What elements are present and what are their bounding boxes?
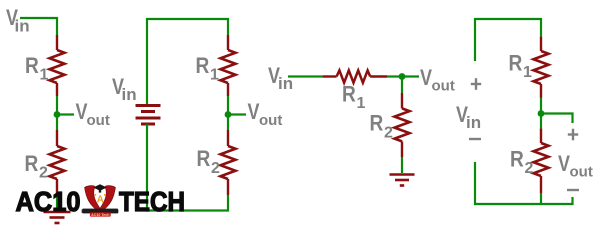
- label R1 (circuit C): [342, 82, 366, 113]
- svg-text:V: V: [558, 151, 570, 176]
- svg-text:R: R: [196, 53, 210, 78]
- wire top rail: [147, 19, 228, 105]
- svg-text:1: 1: [40, 67, 49, 84]
- label Vin (circuit B): [112, 74, 137, 104]
- wire R2 bottom to ground: [401, 157, 403, 173]
- battery V1: [136, 106, 161, 125]
- svg-text:2: 2: [384, 125, 393, 142]
- svg-text:R: R: [197, 146, 211, 171]
- wire R2 bottom (circuit D): [540, 193, 542, 204]
- svg-text:R: R: [25, 53, 39, 78]
- wire R1 to R2: [227, 96, 229, 130]
- wire battery bottom rail: [147, 124, 228, 211]
- label Vin (circuit A): [6, 5, 30, 36]
- wire Vout stub (circuit B): [228, 113, 246, 115]
- label Vout (circuit B): [248, 99, 283, 129]
- svg-text:2: 2: [39, 165, 48, 182]
- resistor R2 (circuit C): [395, 93, 410, 157]
- ground (circuit C): [390, 175, 415, 186]
- resistor R2 (circuit A): [50, 130, 65, 195]
- resistor R1 (circuit D): [534, 37, 549, 98]
- wire R1 to junction: [540, 98, 542, 129]
- svg-text:out: out: [259, 112, 282, 129]
- svg-text:out: out: [570, 164, 593, 181]
- svg-text:2: 2: [211, 160, 220, 177]
- label Vin (circuit C): [268, 63, 293, 93]
- svg-text:R: R: [370, 111, 384, 136]
- label R1 (circuit B): [196, 53, 220, 84]
- wire R2 bottom to ground: [56, 195, 58, 211]
- svg-text:R: R: [510, 147, 524, 172]
- wire Vout stub (circuit D): [541, 114, 573, 124]
- svg-text:1: 1: [210, 67, 219, 84]
- wire junction down: [401, 77, 403, 94]
- svg-text:AC10 Tech: AC10 Tech: [91, 213, 109, 217]
- wire Vin to R1 left: [288, 75, 323, 77]
- node Vout junction (circuit A): [54, 111, 61, 118]
- ground (circuit A): [44, 212, 71, 223]
- svg-text:R: R: [342, 82, 356, 107]
- resistor R1 (circuit A): [50, 35, 65, 96]
- resistor R2 (circuit B): [221, 130, 236, 195]
- wire Vout stub: [57, 113, 74, 115]
- wire R1 right to Vout: [387, 75, 419, 77]
- svg-text:1: 1: [357, 95, 366, 112]
- label R2 (circuit C): [370, 111, 394, 142]
- svg-text:2: 2: [525, 160, 534, 177]
- svg-text:1: 1: [523, 64, 532, 81]
- label + terminal Vin: [471, 78, 481, 90]
- wire bottom rail (circuit D): [475, 162, 573, 204]
- label R1 (circuit D): [509, 51, 533, 82]
- resistor R1 (circuit C): [323, 70, 387, 82]
- svg-text:AC10: AC10: [16, 186, 81, 217]
- svg-text:in: in: [466, 113, 481, 132]
- label + terminal Vout: [568, 129, 578, 141]
- label R1 (circuit A): [25, 53, 49, 84]
- label Vout (circuit D): [558, 151, 593, 181]
- svg-text:out: out: [432, 78, 455, 95]
- svg-text:R: R: [509, 51, 523, 76]
- svg-text:A: A: [97, 195, 104, 206]
- label Vout (circuit C): [420, 65, 455, 95]
- label R2 (circuit D): [510, 147, 534, 178]
- svg-text:in: in: [15, 17, 30, 36]
- node Vout junction (circuit B): [225, 111, 232, 118]
- wire Vin to R1 top: [20, 18, 57, 35]
- label - terminal Vout: [567, 189, 579, 191]
- svg-text:V: V: [420, 65, 432, 90]
- label - terminal Vin: [469, 138, 481, 140]
- svg-text:V: V: [248, 99, 260, 124]
- label Vin (circuit D): [456, 102, 481, 132]
- logo shield: [82, 184, 119, 217]
- svg-text:in: in: [122, 85, 137, 104]
- svg-text:out: out: [87, 112, 110, 129]
- resistor R1 (circuit B): [221, 35, 236, 96]
- wire R1 bottom to R2 top: [56, 96, 58, 130]
- svg-text:TECH: TECH: [119, 186, 185, 217]
- svg-text:R: R: [25, 151, 39, 176]
- label Vout (circuit A): [76, 99, 110, 129]
- label R2 (circuit A): [25, 151, 49, 182]
- label R2 (circuit B): [197, 146, 221, 177]
- wire top rail (circuit D): [475, 19, 541, 61]
- node Vout junction (circuit D): [538, 110, 545, 117]
- node Vout junction (circuit C): [399, 73, 406, 80]
- resistor R2 (circuit D): [534, 128, 549, 193]
